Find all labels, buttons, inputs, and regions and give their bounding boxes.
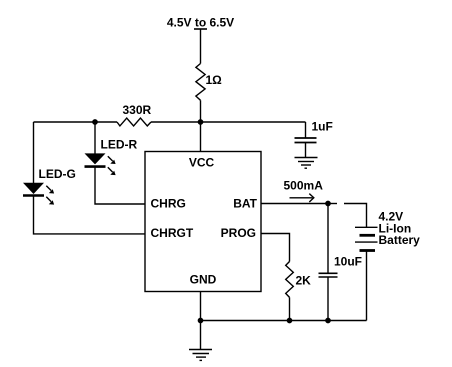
- resistor R1 1ohm: [196, 64, 205, 101]
- svg-text:1uF: 1uF: [312, 120, 333, 134]
- current arrow: [290, 194, 314, 202]
- svg-text:LED-G: LED-G: [39, 167, 76, 181]
- svg-text:CHRG: CHRG: [151, 197, 186, 211]
- power input terminal: [194, 28, 207, 30]
- battery BT1: [355, 227, 378, 250]
- wire node C stub right: [328, 203, 337, 205]
- ground (C1): [295, 158, 318, 169]
- svg-text:Battery: Battery: [379, 233, 421, 247]
- wire R1 to node A: [200, 100, 202, 122]
- svg-text:330R: 330R: [123, 103, 152, 117]
- node 10uF junction dot: [325, 318, 331, 324]
- svg-text:CHRGT: CHRGT: [151, 226, 194, 240]
- svg-text:BAT: BAT: [233, 197, 257, 211]
- svg-text:10uF: 10uF: [334, 255, 362, 269]
- node B junction dot (330R / LED-R): [92, 119, 98, 125]
- node 2K junction dot: [287, 318, 293, 324]
- svg-text:LED-R: LED-R: [101, 138, 138, 152]
- wire node B to LED-R anode: [94, 122, 96, 154]
- wire bottom rail: [201, 320, 367, 322]
- wire top rail to C1: [305, 122, 307, 138]
- svg-text:PROG: PROG: [221, 226, 256, 240]
- wire VIN to R1: [200, 29, 202, 64]
- resistor R2 330R: [117, 118, 151, 126]
- wire C2 to bottom rail: [327, 277, 329, 321]
- ground (main): [189, 321, 212, 361]
- wire left rail down to LED-G: [33, 122, 35, 183]
- node A junction dot: [198, 119, 204, 125]
- resistor R3 2K: [286, 262, 294, 298]
- svg-text:1Ω: 1Ω: [206, 73, 223, 87]
- wire node A to VCC pin: [200, 122, 202, 152]
- wire PROG pin to R3: [261, 234, 290, 262]
- svg-text:4.5V to 6.5V: 4.5V to 6.5V: [167, 16, 234, 30]
- wire top rail left segment: [34, 121, 118, 123]
- wire LED-R cathode to CHRG pin: [95, 167, 145, 204]
- svg-text:2K: 2K: [296, 274, 312, 288]
- LED D1 LED-R: [85, 153, 116, 175]
- wire GND pin to bottom rail: [200, 292, 202, 321]
- wire R3 to bottom rail: [289, 297, 291, 320]
- svg-text:500mA: 500mA: [284, 179, 324, 193]
- node C junction dot (BAT node): [325, 201, 331, 207]
- op-amp / IC U1 box: [145, 152, 261, 292]
- LED D2 LED-G: [23, 183, 54, 205]
- wire battery negative to bottom rail: [366, 251, 368, 321]
- wire top rail right segment: [151, 121, 306, 123]
- wire LED-G cathode to CHRGT pin: [34, 196, 146, 234]
- wire BAT pin to node C: [261, 203, 328, 205]
- wire to battery (after gap): [344, 204, 367, 228]
- svg-text:GND: GND: [190, 273, 217, 287]
- capacitor C2 10uF: [319, 273, 338, 277]
- node GND junction dot: [198, 318, 204, 324]
- wire node C down to C2: [327, 204, 329, 274]
- capacitor C1 1uF: [295, 138, 317, 158]
- svg-text:VCC: VCC: [189, 156, 215, 170]
